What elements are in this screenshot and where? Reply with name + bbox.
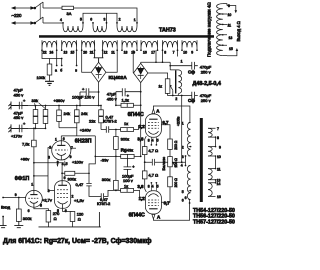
svg-text:5: 5 (157, 184, 159, 188)
svg-text:20: 20 (83, 51, 87, 55)
input terminal and wire (3, 197, 25, 199)
svg-text:Ω: Ω (54, 216, 57, 221)
svg-text:2: 2 (175, 97, 177, 101)
grid stopper 1k lower (116, 190, 145, 197)
svg-text:12: 12 (104, 51, 108, 55)
svg-text:КЦ402А: КЦ402А (109, 75, 128, 81)
ground bus bottom (39, 212, 101, 227)
rectifier bridge KTs402A (91, 62, 106, 82)
svg-text:100 v: 100 v (123, 178, 133, 183)
bias column x115.9 (115, 130, 117, 181)
bridge output wire down to +390 rail (98, 82, 100, 105)
svg-text:15: 15 (229, 47, 233, 51)
triode 6N23P envelope (52, 141, 71, 160)
resistor Rg 43k (116, 155, 141, 157)
6N23P grid (55, 149, 68, 151)
resistor 24k A (58, 106, 60, 128)
6F1P anode (30, 194, 37, 196)
svg-text:3,8: 3,8 (137, 184, 144, 189)
svg-text:К73П-2: К73П-2 (97, 201, 111, 206)
cathode resistor 270 Ohm (34, 207, 49, 210)
svg-text:24: 24 (50, 51, 54, 55)
svg-text:1к: 1к (124, 121, 128, 126)
svg-text:7,5к: 7,5к (22, 142, 30, 147)
svg-text:4: 4 (152, 138, 154, 142)
balance wiper arrow (173, 163, 176, 167)
svg-text:9: 9 (191, 51, 193, 55)
+170v rail (11, 127, 46, 129)
coupling capacitor 0,47 K73P-2 upper (101, 126, 116, 133)
svg-text:10: 10 (228, 13, 232, 17)
T1 secondary winding 20-21 (82, 40, 95, 50)
resistor 22k (100, 106, 102, 130)
svg-text:13: 13 (229, 36, 233, 40)
anode feed line y136 (61, 136, 95, 141)
svg-text:Ω: Ω (78, 217, 81, 222)
resistor pair 33k strand B (45, 106, 47, 129)
svg-text:24k: 24k (64, 111, 70, 116)
6F1P grid (28, 197, 39, 199)
pentode anode (58, 184, 67, 186)
fuse F1 3A (62, 6, 74, 9)
phase splitter feed column x95.3 (89, 136, 95, 183)
V4 anode bottom cap A (152, 214, 155, 219)
svg-text:в: в (75, 69, 77, 73)
svg-text:200 Ω: 200 Ω (174, 140, 178, 150)
OT secondary windings (208, 128, 212, 196)
output 4 Ohm terminals (227, 4, 237, 56)
balance potentiometer 200 Ohm (169, 149, 171, 176)
svg-text:1к: 1к (124, 183, 128, 188)
svg-text:450 v: 450 v (14, 115, 24, 120)
OT primary winding upper section (187, 123, 190, 157)
grid stopper 1k upper (116, 126, 145, 130)
capacitor 0,47 coupling to lower grid (86, 183, 101, 196)
wire fuse to primary pin 1 (74, 8, 138, 23)
svg-text:+205в: +205в (176, 116, 180, 126)
-33v line (95, 155, 116, 157)
capacitor Sf 470uF 250v upper (170, 62, 198, 70)
svg-text:1к: 1к (159, 84, 163, 88)
svg-text:6: 6 (28, 209, 30, 213)
svg-text:6: 6 (63, 137, 65, 141)
V4 anode wire to OT pin 6 (153, 200, 189, 221)
V3 anode top cap A (152, 109, 155, 114)
svg-text:б: б (60, 69, 62, 73)
V3 heater wires (151, 137, 156, 145)
svg-text:4: 4 (60, 18, 62, 22)
svg-text:11: 11 (217, 168, 221, 172)
T1 secondary winding 22-24 (42, 40, 57, 50)
resistor 4,7 Ohm upper (142, 147, 147, 155)
wire pin 17 to bias bridge (141, 50, 171, 70)
6N23P grid2 stub pin 7 (71, 147, 76, 149)
+390v rail (11, 105, 101, 107)
svg-text:13: 13 (64, 51, 68, 55)
svg-text:а: а (55, 69, 57, 73)
capacitor Sf 470uF 250v lower (182, 92, 198, 100)
input ground terminal (2, 216, 4, 218)
V3 cathode wire to 4,7 Ohm (145, 136, 147, 147)
svg-text:450 v: 450 v (107, 96, 117, 101)
V4 grids (148, 200, 159, 206)
svg-text:1: 1 (31, 183, 33, 187)
svg-text:11: 11 (111, 51, 115, 55)
T1 primary winding 6-3 (93, 23, 107, 32)
svg-text:Вход: Вход (1, 205, 11, 210)
svg-text:300k: 300k (23, 216, 32, 221)
resistor 300k upper bias (114, 137, 119, 150)
wiper line to OT centre taps (176, 156, 186, 166)
coupling capacitor 0,47 K73P-2 lower (101, 190, 116, 199)
6N23P anode (57, 144, 65, 146)
svg-text:300к: 300к (68, 177, 77, 182)
svg-text:6: 6 (90, 18, 92, 22)
trimmer 1k (165, 79, 170, 94)
svg-text:10: 10 (183, 51, 187, 55)
capacitor 47uF 450v lower left (19, 125, 28, 133)
svg-text:6: 6 (182, 198, 184, 202)
V3 anode wire to OT pin 1 (153, 106, 190, 123)
svg-text:ТН57-127/220-50: ТН57-127/220-50 (193, 219, 235, 225)
svg-text:250 v: 250 v (201, 98, 211, 103)
T1 primary winding 2-1 (117, 23, 137, 32)
V3 anode bar (149, 118, 157, 120)
wire switch to primary pin 4 (43, 22, 63, 24)
svg-text:300к: 300к (102, 177, 111, 182)
resistor 300k lower bias (114, 180, 119, 190)
svg-text:+2,7v: +2,7v (42, 197, 52, 202)
resistor pair 33k strand A (35, 106, 37, 129)
load diagram winding (217, 4, 223, 56)
svg-text:200 Ω: 200 Ω (174, 178, 178, 188)
ground chassis left upper (8, 102, 19, 110)
svg-text:2: 2 (119, 18, 121, 22)
svg-text:1,2к: 1,2к (122, 98, 130, 103)
svg-text:9: 9 (70, 155, 72, 159)
svg-text:6П44С: 6П44С (128, 112, 144, 118)
svg-text:Подключение нагрузки 4Ω: Подключение нагрузки 4Ω (207, 2, 212, 57)
wire pins 21,12 to bridge top (94, 50, 104, 62)
T1 secondary winding 13-15 (62, 40, 77, 50)
resistor 300k grid leak input (18, 198, 20, 210)
svg-text:Для 6П41С: Rg=27к, Uсм= -27В,: Для 6П41С: Rg=27к, Uсм= -27В, Сф=330мкф (3, 238, 152, 245)
svg-text:8: 8 (164, 51, 166, 55)
mains input arrows ~220V (12, 7, 36, 24)
OT secondary series jumpers (215, 137, 217, 183)
+240v rail (59, 128, 77, 136)
resistor 200 Ohm lower (168, 177, 173, 187)
pentode grids (57, 190, 68, 198)
bias bridge output column (140, 83, 142, 157)
svg-text:1: 1 (182, 122, 184, 126)
ground chassis left lower (8, 124, 19, 132)
svg-text:11: 11 (228, 24, 232, 28)
6N23P cathode (57, 153, 66, 160)
filter choke D48-2,5-0,4 (170, 70, 182, 94)
svg-text:22к: 22к (89, 118, 95, 123)
T1 secondary winding 10-9 (182, 40, 197, 50)
svg-text:4,7 Ω: 4,7 Ω (148, 173, 158, 178)
svg-text:6П44С: 6П44С (129, 212, 145, 218)
svg-text:300к: 300к (121, 137, 130, 142)
svg-text:5: 5 (66, 162, 68, 166)
svg-text:5: 5 (80, 18, 82, 22)
svg-text:6: 6 (64, 176, 66, 180)
heater bus wire pins 22-24-13 (42, 50, 77, 65)
svg-text:5: 5 (157, 138, 159, 142)
svg-text:16: 16 (217, 195, 221, 199)
switch S1 DPST (35, 2, 43, 23)
resistor 100k (49, 59, 51, 65)
V4 anode bar (149, 208, 157, 210)
resistor 24k B (76, 106, 78, 128)
direct-coupling line to 6N23P grid (34, 175, 48, 177)
svg-text:7: 7 (217, 127, 219, 131)
svg-text:3: 3 (48, 189, 50, 193)
T1 secondary winding 12-11 (103, 40, 118, 50)
heater stubs below 6N23P (58, 161, 65, 167)
svg-text:+100v: +100v (72, 160, 83, 165)
6F1P cathode (30, 201, 38, 207)
T1 secondary winding 8-7 (163, 40, 178, 50)
svg-text:4: 4 (152, 184, 154, 188)
output tube V4 6P44S lower envelope (145, 191, 161, 214)
svg-text:1: 1 (181, 60, 183, 64)
svg-text:1: 1 (55, 138, 57, 142)
ground below 100k (45, 81, 54, 85)
OT primary winding lower section (187, 166, 190, 200)
svg-text:ТАН73: ТАН73 (159, 27, 176, 33)
svg-text:9: 9 (15, 193, 17, 197)
V3 grids (148, 123, 159, 129)
junction wire with balance cap (145, 155, 176, 171)
wire switch to fuse (43, 7, 62, 9)
T1 secondary winding 16-17 (141, 40, 158, 50)
svg-text:1: 1 (134, 18, 136, 22)
T1 secondary winding 18-19 (122, 40, 137, 50)
svg-text:4: 4 (181, 163, 183, 167)
V4 heater wires (151, 183, 156, 191)
wire pin 7 down (177, 50, 179, 56)
svg-text:10: 10 (217, 155, 221, 159)
svg-text:-33v: -33v (101, 157, 109, 162)
+96v line to pentode anode (34, 163, 62, 181)
svg-text:24k: 24k (81, 111, 87, 116)
V3 screen wire to 200 Ohm (161, 125, 170, 139)
triode 6F1P envelope (26, 190, 43, 207)
wire pin 20 to bridge left (82, 50, 92, 72)
svg-text:8: 8 (217, 136, 219, 140)
svg-text:43к: 43к (127, 148, 133, 153)
V3 cathode (148, 131, 158, 134)
svg-text:21: 21 (90, 51, 94, 55)
svg-text:Д48-2,5-0,4: Д48-2,5-0,4 (193, 81, 221, 87)
wire bias bridge right to trimmer (148, 73, 168, 79)
svg-text:К73П-2: К73П-2 (104, 119, 118, 124)
svg-text:3: 3 (182, 155, 184, 159)
svg-text:5: 5 (182, 190, 184, 194)
resistor 300k (pentode anode load coupling) (62, 172, 89, 174)
pentode cathode (58, 201, 68, 208)
pentode cathode resistor 120 Ohm (63, 208, 73, 211)
6N23P grid wire from triode anode column (48, 148, 55, 191)
svg-text:9: 9 (228, 4, 230, 8)
svg-text:100k: 100k (37, 75, 46, 80)
svg-text:14: 14 (217, 182, 221, 186)
svg-text:8: 8 (148, 138, 150, 142)
svg-text:3A: 3A (67, 11, 72, 16)
svg-text:Сф: Сф (188, 98, 195, 103)
resistor 1,2k bias filter (116, 104, 141, 106)
svg-text:+1,5v: +1,5v (74, 198, 84, 203)
output tube V3 6P44S upper envelope (145, 114, 161, 137)
capacitor 100uF 100v (80, 88, 99, 105)
bias rectifier bridge (134, 63, 148, 82)
choke output to B+ column (178, 94, 181, 162)
svg-text:3,8: 3,8 (137, 137, 144, 142)
svg-text:100µF 100 v: 100µF 100 v (72, 95, 94, 100)
svg-text:1,2: 1,2 (139, 124, 146, 129)
svg-text:+170v: +170v (11, 134, 22, 139)
svg-text:33k: 33k (32, 98, 38, 103)
svg-text:Сф: Сф (188, 69, 195, 74)
pentode 6F1P envelope (55, 181, 71, 209)
svg-text:17: 17 (151, 51, 155, 55)
svg-text:5: 5 (57, 209, 59, 213)
OT core (200, 118, 203, 202)
svg-text:6Н23П: 6Н23П (75, 139, 92, 145)
load diagram pin stubs (223, 4, 227, 56)
svg-text:6Ф1П: 6Ф1П (15, 176, 30, 182)
svg-text:450 v: 450 v (14, 92, 24, 97)
svg-text:6,7: 6,7 (164, 201, 171, 206)
OT secondary pin stubs (208, 128, 216, 196)
svg-text:0,47: 0,47 (76, 182, 85, 187)
svg-text:8: 8 (40, 204, 42, 208)
transformer T1 primary pin dots (62, 22, 138, 24)
jumper wire pins 5-3-2 (83, 13, 117, 22)
resistor 7,5k (33, 128, 35, 140)
svg-text:9: 9 (219, 145, 221, 149)
svg-text:250 v: 250 v (201, 69, 211, 74)
V4 cathode wire to 4,7 Ohm (145, 179, 147, 192)
triode anode column x33.9 (33, 147, 35, 191)
capacitor 47uF 450v upper left (19, 102, 28, 110)
svg-text:3: 3 (104, 18, 106, 22)
svg-text:18: 18 (124, 51, 128, 55)
svg-text:1,2: 1,2 (139, 196, 146, 201)
capacitor 100uF 100v bias (124, 158, 132, 175)
wire pin 11 to bridge right (106, 50, 117, 72)
svg-text:6: 6 (185, 196, 187, 200)
svg-text:~220: ~220 (12, 13, 22, 18)
svg-text:+390v: +390v (54, 98, 65, 103)
svg-text:+96v: +96v (21, 156, 30, 161)
svg-text:7: 7 (173, 51, 175, 55)
svg-text:15: 15 (71, 51, 75, 55)
T1 core (39, 35, 214, 38)
svg-text:2: 2 (182, 146, 184, 150)
svg-text:+240v: +240v (80, 128, 91, 133)
V4 screen wire to 200 Ohm (161, 187, 170, 203)
svg-text:4,7 Ω: 4,7 Ω (148, 148, 158, 153)
T1 primary winding 4-5 (63, 23, 83, 32)
wire pin 19 to bias bridge left (132, 50, 134, 73)
capacitor 47uF 450v bias filter (116, 88, 141, 105)
svg-text:Баланс: Баланс (161, 157, 166, 171)
resistor 200 Ohm upper (168, 139, 173, 149)
resistor 4,7 Ohm lower (142, 171, 147, 179)
svg-text:8: 8 (148, 184, 150, 188)
svg-text:16: 16 (143, 51, 147, 55)
svg-text:Выход 4 Ω: Выход 4 Ω (236, 21, 241, 41)
svg-text:22: 22 (43, 51, 47, 55)
V4 cathode (148, 194, 158, 197)
